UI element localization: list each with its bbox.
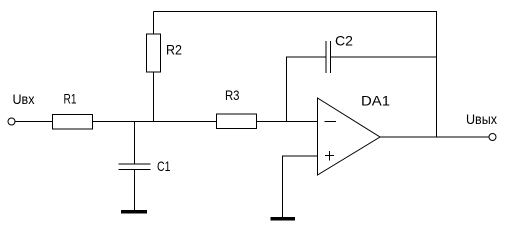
resistor R1 [53, 115, 93, 130]
svg-text:R1: R1 [64, 91, 77, 107]
svg-text:DA1: DA1 [361, 93, 390, 109]
plus sign [325, 151, 334, 161]
wire R3 to op-amp [257, 121, 318, 123]
wire C2 to output node [331, 56, 437, 58]
svg-text:Uвх: Uвх [13, 91, 35, 107]
ground under C1 [121, 210, 147, 214]
capacitor C1 [119, 122, 151, 211]
feedback wire top [154, 12, 437, 138]
svg-text:Uвых: Uвых [466, 111, 497, 127]
output terminal Uvyx [489, 134, 496, 141]
ground at non-inverting input [271, 217, 296, 221]
capacitor C2 [326, 41, 331, 73]
minus sign [325, 121, 337, 123]
output wire [380, 136, 489, 138]
op-amp DA1 [318, 98, 381, 175]
svg-text:R2: R2 [166, 42, 182, 58]
input terminal Uvx [8, 118, 15, 125]
wire non-inverting input [283, 156, 318, 217]
wire input to R1 [15, 121, 53, 123]
wire R1 to R3 [93, 121, 217, 123]
resistor R2 [147, 12, 161, 122]
wire C2 branch left [287, 57, 327, 122]
svg-text:R3: R3 [225, 87, 240, 103]
svg-text:C2: C2 [335, 33, 353, 49]
resistor R3 [217, 114, 257, 129]
svg-text:C1: C1 [157, 158, 171, 174]
